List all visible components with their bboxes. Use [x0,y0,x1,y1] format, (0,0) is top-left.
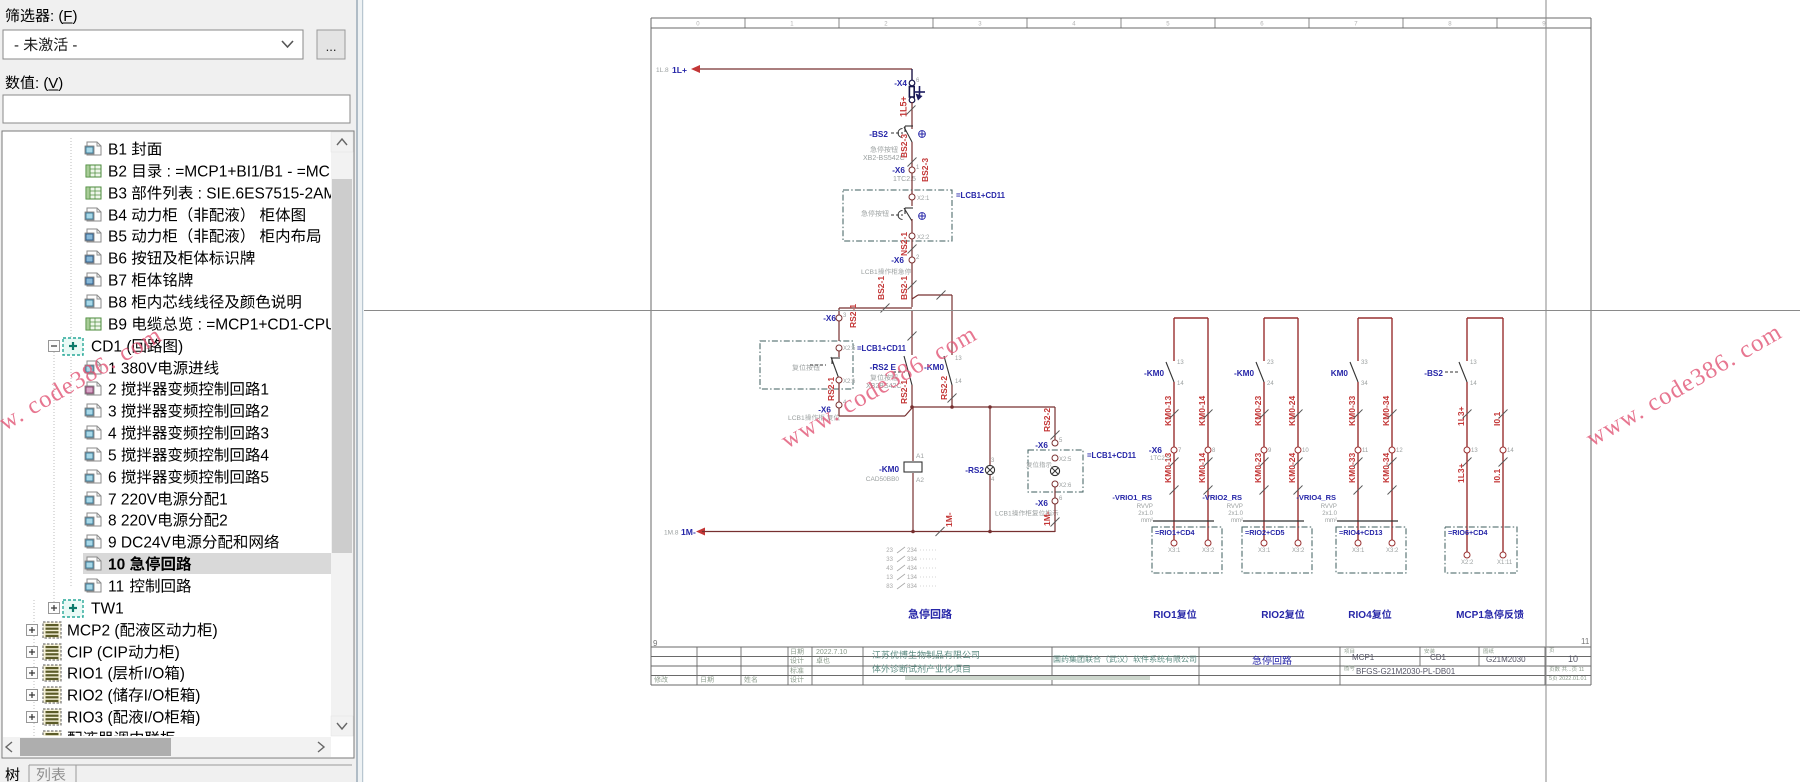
svg-text:=LCB1+CD11: =LCB1+CD11 [956,191,1006,200]
svg-text:RS2-2: RS2-2 [1042,408,1052,432]
svg-text:X1:11: X1:11 [1497,560,1513,566]
svg-text:-VRIO4_RS: -VRIO4_RS [1296,493,1336,502]
svg-text:KM0-34: KM0-34 [1381,452,1391,483]
svg-text:10: 10 [108,557,130,574]
svg-text:11: 11 [108,579,128,596]
svg-text:=RIO6+CD4: =RIO6+CD4 [1448,528,1488,537]
svg-text:234: 234 [907,548,918,554]
svg-text:: (: : ( [35,75,48,92]
svg-text:KM0-34: KM0-34 [1381,395,1391,426]
svg-text:RIO3 (: RIO3 ( [67,710,113,727]
svg-text:: =MCP1+CD1-CPU: : =MCP1+CD1-CPU [193,317,336,334]
svg-text:B1: B1 [108,142,131,159]
svg-text:83: 83 [886,584,893,590]
svg-text:7 220V: 7 220V [108,492,158,509]
svg-text:-RS2: -RS2 [965,466,984,475]
svg-text:11: 11 [1581,637,1590,646]
svg-text:RS2-2: RS2-2 [939,376,949,400]
svg-text:-X6: -X6 [891,256,904,265]
svg-text:-X6: -X6 [823,314,836,323]
svg-text:KM0-33: KM0-33 [1347,452,1357,483]
svg-text:13: 13 [1470,360,1477,366]
svg-text:33: 33 [1361,360,1368,366]
svg-text:X3:1: X3:1 [1258,548,1271,554]
svg-text:-KM0: -KM0 [1234,369,1254,378]
svg-text:-BS2: -BS2 [1424,369,1443,378]
svg-text:134: 134 [907,575,918,581]
svg-text:2022.7.10: 2022.7.10 [816,649,847,656]
svg-text:5: 5 [108,448,121,465]
svg-text:X3:2: X3:2 [1202,548,1215,554]
svg-text:CIP (CIP: CIP (CIP [67,645,128,662]
svg-text:X2:6: X2:6 [843,379,856,385]
svg-text:43: 43 [886,566,893,572]
svg-text:B7: B7 [108,273,131,290]
svg-text:BS2-3: BS2-3 [920,158,930,182]
svg-text:-: - [14,37,23,54]
svg-text:I/O: I/O [144,688,165,705]
svg-text:KM0-24: KM0-24 [1287,452,1297,483]
svg-text:): ) [195,688,200,705]
svg-text:23: 23 [886,548,893,554]
svg-text:B2: B2 [108,164,131,181]
svg-text:KM0-24: KM0-24 [1287,395,1297,426]
svg-text:A1: A1 [916,453,924,460]
svg-text:KM0-23: KM0-23 [1253,452,1263,483]
svg-text:RVVP: RVVP [1137,504,1153,510]
svg-text:X2:2: X2:2 [1461,560,1474,566]
svg-text:14: 14 [955,379,962,385]
svg-text:3: 3 [108,404,121,421]
svg-text:1L+: 1L+ [672,65,687,75]
svg-text:-X6: -X6 [892,166,905,175]
svg-text:KM0: KM0 [1331,369,1349,378]
svg-text:: =MCP1+BI1/B1 - =MC: : =MCP1+BI1/B1 - =MC [162,164,330,181]
svg-text:KM0-14: KM0-14 [1197,395,1207,426]
svg-text:BFGS-G21M2030-PL-DB01: BFGS-G21M2030-PL-DB01 [1356,667,1456,676]
svg-text:BS2-1: BS2-1 [899,276,909,300]
svg-text:-KM0: -KM0 [1144,369,1164,378]
svg-text:B6: B6 [108,251,131,268]
svg-text:-VRIO2_RS: -VRIO2_RS [1202,493,1242,502]
svg-text:B8: B8 [108,295,131,312]
svg-text:-KM0: -KM0 [879,465,899,474]
svg-text:2: 2 [260,404,269,421]
svg-text:1M.8: 1M.8 [664,530,679,537]
svg-text:RIO1 (: RIO1 ( [67,666,113,683]
svg-text:14: 14 [1507,448,1514,454]
svg-text:13: 13 [1177,360,1184,366]
svg-text:X2:2: X2:2 [917,235,930,241]
svg-text:-X4: -X4 [894,79,907,88]
svg-text:12: 12 [1396,448,1403,454]
svg-text:I0.1: I0.1 [1492,469,1502,483]
svg-text:B9: B9 [108,317,131,334]
svg-text:-X6: -X6 [1149,445,1163,455]
svg-text:): ) [195,710,200,727]
svg-text:KM0-23: KM0-23 [1253,395,1263,426]
svg-text:I/O: I/O [144,666,165,683]
svg-text:-: - [68,37,77,54]
svg-text:MCP1: MCP1 [1456,610,1484,621]
svg-text:=LCB1+CD11: =LCB1+CD11 [857,344,907,353]
svg-text:TW1: TW1 [91,601,124,618]
svg-text:): ) [175,645,180,662]
svg-text:KM0-14: KM0-14 [1197,452,1207,483]
svg-text:2x1.0: 2x1.0 [1228,511,1243,517]
svg-text:CAD50BB0: CAD50BB0 [866,476,900,483]
svg-text:1M-: 1M- [1042,511,1052,526]
svg-text:5: 5 [1549,676,1552,682]
svg-text:X3:1: X3:1 [1352,548,1365,554]
svg-text:X2:5: X2:5 [1059,457,1072,463]
svg-text:2: 2 [219,513,228,530]
svg-text:1M-: 1M- [944,512,954,527]
svg-text:1: 1 [260,382,269,399]
svg-text:RS2-1: RS2-1 [848,304,858,328]
svg-text:mm²: mm² [1325,518,1337,524]
svg-text:-X6: -X6 [1035,499,1048,508]
svg-text:B5: B5 [108,229,131,246]
svg-text:LCB1: LCB1 [861,269,878,276]
svg-text:: (: : ( [50,8,63,25]
svg-text:...: ... [326,39,337,54]
svg-text:14: 14 [1470,381,1477,387]
svg-text:434: 434 [907,566,918,572]
svg-text:CD1: CD1 [1430,653,1447,662]
svg-text:RIO4: RIO4 [1348,610,1372,621]
svg-text:KM0-33: KM0-33 [1347,395,1357,426]
svg-text:=RIO4+CD13: =RIO4+CD13 [1339,528,1383,537]
svg-text:2x1.0: 2x1.0 [1138,511,1153,517]
svg-text:): ) [178,339,183,356]
svg-text:11: 11 [1362,448,1369,454]
svg-text:2: 2 [108,382,121,399]
svg-text:9 DC24V: 9 DC24V [108,535,172,552]
svg-text:X3:1: X3:1 [1168,548,1181,554]
svg-text:34: 34 [1361,381,1368,387]
svg-text:14: 14 [1177,381,1184,387]
svg-text:): ) [73,8,78,25]
svg-text:3: 3 [260,426,269,443]
svg-text:24: 24 [1267,381,1274,387]
svg-text:V: V [48,75,58,92]
svg-text:=RIO1+CD4: =RIO1+CD4 [1155,528,1195,537]
svg-text:I0.1: I0.1 [1492,412,1502,426]
svg-text:-X6: -X6 [1035,441,1048,450]
svg-text:RVVP: RVVP [1227,504,1243,510]
svg-text:LCB1: LCB1 [995,511,1012,518]
svg-text:10: 10 [1568,654,1578,664]
svg-text:A2: A2 [916,477,924,484]
svg-text:B4: B4 [108,208,131,225]
svg-text:33: 33 [886,557,893,563]
svg-text:-VRIO1_RS: -VRIO1_RS [1112,493,1152,502]
svg-text:X3:2: X3:2 [1386,548,1399,554]
svg-text:: SIE.6ES7515-2AM: : SIE.6ES7515-2AM [193,186,336,203]
svg-text:X2:5: X2:5 [843,346,856,352]
svg-text:I/O: I/O [144,710,165,727]
svg-text:1M-: 1M- [681,527,696,537]
svg-text:1L.8: 1L.8 [656,67,669,74]
svg-text:1TC2.5: 1TC2.5 [1150,456,1170,462]
svg-text:): ) [180,666,185,683]
svg-text:1TC2.5: 1TC2.5 [893,176,916,183]
svg-text:1L3+: 1L3+ [1456,463,1466,483]
svg-text:2022.01.01: 2022.01.01 [1558,676,1587,682]
svg-text:X3:2: X3:2 [1292,548,1305,554]
svg-text:13: 13 [886,575,893,581]
svg-text:=RIO2+CD5: =RIO2+CD5 [1245,528,1285,537]
svg-text:-BS2: -BS2 [869,130,888,139]
svg-text:8 220V: 8 220V [108,513,158,530]
svg-text:KM0-13: KM0-13 [1163,395,1173,426]
svg-text:RIO2: RIO2 [1261,610,1285,621]
svg-text:10: 10 [1302,448,1309,454]
svg-text:4: 4 [108,426,121,443]
svg-text:=LCB1+CD11: =LCB1+CD11 [1087,451,1137,460]
svg-text:6: 6 [108,470,121,487]
svg-text:RIO1: RIO1 [1153,610,1177,621]
svg-text:F: F [63,8,72,25]
svg-text:RVVP: RVVP [1321,504,1337,510]
svg-text:B3: B3 [108,186,131,203]
svg-text:2x1.0: 2x1.0 [1322,511,1337,517]
svg-text:334: 334 [907,557,918,563]
svg-text:5: 5 [260,470,269,487]
svg-text:X2:6: X2:6 [1059,483,1072,489]
svg-text:): ) [58,75,63,92]
svg-text:BS2-1: BS2-1 [876,276,886,300]
svg-text:BS2-3: BS2-3 [899,134,909,158]
svg-text:4: 4 [260,448,269,465]
svg-text:MCP2 (: MCP2 ( [67,623,120,640]
svg-text:1: 1 [219,492,228,509]
svg-text:G21M2030: G21M2030 [1486,655,1526,664]
svg-text:23: 23 [1267,360,1274,366]
svg-text:X2:1: X2:1 [917,196,930,202]
svg-text:...: ... [1567,667,1572,673]
svg-text:11: 11 [1577,667,1584,673]
svg-text:RIO2 (: RIO2 ( [67,688,113,705]
svg-text:): ) [213,623,218,640]
svg-text:NS2-1: NS2-1 [899,232,909,256]
svg-text:mm²: mm² [1141,518,1153,524]
svg-text:834: 834 [907,584,918,590]
svg-text:MCP1: MCP1 [1352,653,1375,662]
svg-text:mm²: mm² [1231,518,1243,524]
svg-text:13: 13 [1471,448,1478,454]
